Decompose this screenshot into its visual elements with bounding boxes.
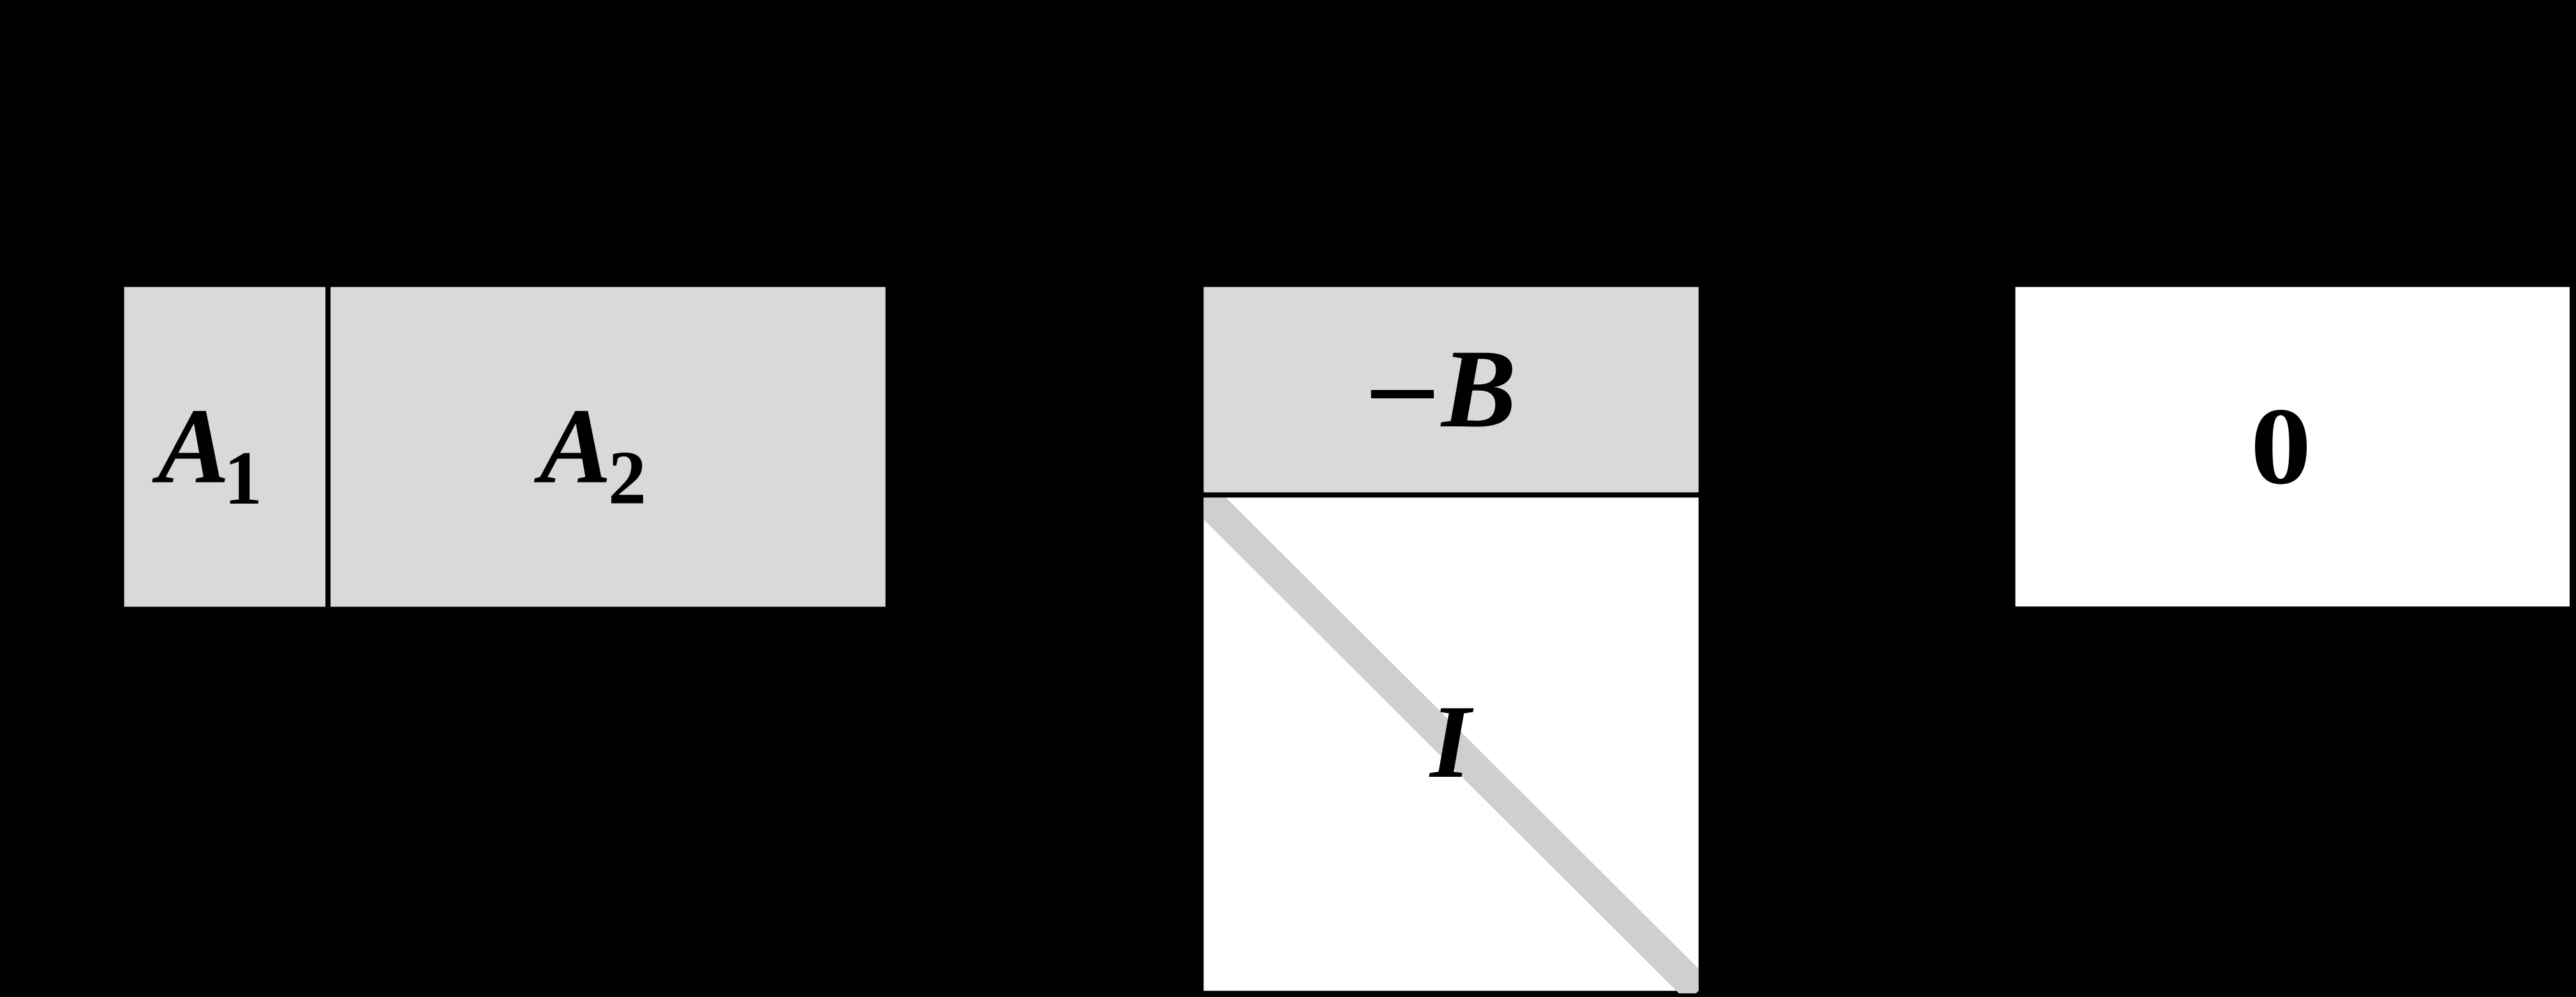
diagonal band of identity matrix (1203, 497, 1699, 991)
matrix block A2 (328, 285, 888, 610)
label A1 (152, 386, 262, 521)
svg-text:A: A (152, 386, 230, 506)
matrix block I (white region) (1201, 495, 1701, 993)
svg-text:I: I (1429, 684, 1474, 800)
svg-text:B: B (1440, 327, 1516, 451)
matrix block A1 (122, 285, 328, 610)
label -B : minus sign (1371, 390, 1434, 398)
svg-text:0: 0 (2251, 386, 2312, 507)
svg-text:1: 1 (224, 435, 262, 520)
matrix block 0 (white rectangle) (2013, 285, 2572, 610)
label A2 (534, 386, 647, 520)
svg-text:A: A (534, 386, 612, 506)
svg-text:2: 2 (608, 435, 646, 520)
matrix block -B (gray region) (1201, 285, 1701, 495)
